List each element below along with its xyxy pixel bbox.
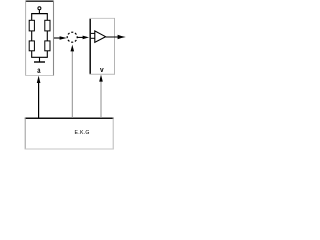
svg-text:E.K.G: E.K.G [75, 130, 90, 136]
wire amplifier output [106, 36, 119, 38]
terminal P [38, 7, 41, 10]
arrowhead into summing junction from below [71, 45, 75, 52]
wire EKG to summing junction [71, 50, 73, 118]
arrowhead into bridge box [37, 76, 41, 83]
wire terminal to top rail [38, 10, 40, 14]
arrowhead into amplifier bottom [99, 75, 103, 82]
op-amp input wire + [91, 32, 95, 34]
wire right branch upper [46, 14, 48, 21]
op-amp U1 [95, 31, 106, 43]
resistor R1 [29, 20, 34, 31]
amplifier box [90, 18, 116, 75]
wire bridge output [54, 37, 60, 39]
ground [34, 61, 45, 63]
wire left branch middle [31, 31, 33, 41]
resistor R3 [29, 41, 34, 51]
wire to ground [39, 57, 41, 61]
wire left branch lower [31, 51, 33, 58]
arrowhead into summing junction [60, 36, 67, 39]
wire left branch upper [31, 14, 33, 21]
wire right branch middle [46, 31, 48, 41]
wire EKG to bridge [38, 82, 40, 118]
summing junction [67, 32, 77, 42]
wire top rail [31, 13, 48, 15]
op-amp input wire - [91, 37, 95, 39]
sensor bridge box [25, 1, 54, 76]
E.K.G block [25, 118, 114, 150]
arrowhead output [118, 35, 126, 39]
wire right branch lower [46, 51, 48, 58]
arrowhead into amplifier box [83, 36, 89, 40]
wire junction to amplifier [77, 36, 84, 38]
wire bottom rail [31, 56, 48, 58]
svg-text:v: v [100, 67, 104, 74]
wire EKG to amplifier [100, 81, 102, 119]
resistor R4 [45, 41, 50, 51]
resistor R2 [45, 20, 50, 31]
